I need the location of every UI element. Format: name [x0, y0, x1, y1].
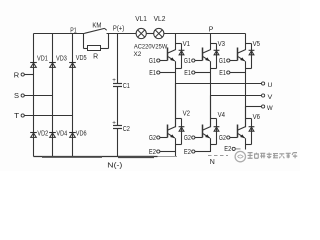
svg-text:P(+): P(+): [113, 23, 124, 32]
wire: phase U output: [176, 83, 262, 85]
svg-text:E1: E1: [149, 70, 156, 77]
terminal U: [262, 82, 265, 85]
wire: N bus darker segment left: [42, 156, 102, 158]
wire: rectifier leg column 1: [33, 34, 35, 157]
resistor R (charging resistor): [84, 48, 88, 50]
svg-text:T: T: [14, 111, 20, 120]
wire: rectifier leg column 3: [72, 34, 74, 157]
svg-text:V2: V2: [183, 110, 190, 118]
svg-text:VD4: VD4: [56, 129, 67, 138]
diode VD5: [69, 62, 76, 64]
svg-text:VD3: VD3: [56, 54, 67, 63]
svg-text:R: R: [93, 52, 98, 61]
svg-text:VD1: VD1: [37, 54, 48, 63]
svg-text:V5: V5: [253, 40, 260, 48]
wire: inverter positive bus (node P): [164, 33, 246, 35]
transistor V5 (IGBT): [238, 34, 246, 62]
svg-text:G2: G2: [149, 135, 156, 142]
svg-text:E2: E2: [224, 146, 231, 153]
gate terminal G2 of V4: [184, 135, 203, 142]
wire: top DC bus from rectifier to KM: [34, 33, 85, 35]
svg-text:G2: G2: [184, 135, 191, 142]
wire: N bus faint segment under watermark: [158, 156, 178, 158]
svg-text:S: S: [14, 91, 19, 100]
svg-text:G1: G1: [184, 58, 191, 65]
svg-text:KM: KM: [92, 23, 101, 30]
svg-text:U: U: [268, 82, 273, 89]
svg-text:VD5: VD5: [76, 53, 87, 62]
svg-text:E1: E1: [184, 70, 191, 77]
diode VD3: [49, 62, 56, 64]
svg-text:V6: V6: [253, 113, 260, 121]
terminal W: [262, 105, 265, 108]
wire: emitter of V1 down to phase node: [175, 61, 177, 127]
wire: emitter of V3 down to phase node: [210, 61, 212, 127]
svg-text:V4: V4: [218, 111, 225, 119]
svg-text:G1: G1: [219, 58, 226, 65]
watermark text (pseudo CJK glyph marks): [248, 153, 298, 159]
wire: emitter of V4 (fades into watermark): [210, 138, 212, 152]
wire: N bus thick segment right of C2: [118, 156, 154, 158]
wire: C2 to N bus: [117, 129, 119, 157]
gate terminal G2 of V2: [149, 135, 168, 142]
freewheeling diode of V5: [246, 44, 255, 69]
svg-text:R: R: [14, 70, 19, 79]
svg-text:E2: E2: [149, 149, 156, 156]
freewheeling diode of V6: [246, 119, 255, 145]
wire: phase W output: [246, 106, 262, 108]
wire: R phase input: [24, 74, 33, 76]
svg-text:P: P: [209, 24, 214, 33]
svg-text:X2: X2: [134, 51, 142, 58]
wire: N(-) bus: [34, 156, 158, 158]
svg-text:N: N: [210, 157, 215, 166]
wire: emitter of V2 to N bus: [175, 138, 177, 156]
terminal V: [262, 94, 265, 97]
svg-text:G2: G2: [219, 135, 226, 142]
svg-text:VD2: VD2: [37, 129, 48, 138]
wire: resistor branch right drop: [108, 34, 110, 49]
svg-text:C1: C1: [123, 81, 130, 90]
wire: resistor branch left drop: [83, 34, 85, 49]
transistor V4 (IGBT): [203, 96, 211, 139]
svg-text:AC220V25W: AC220V25W: [134, 43, 168, 50]
diode VD4: [49, 132, 56, 134]
wire: phase V output: [211, 95, 262, 97]
transistor V3 (IGBT): [203, 34, 211, 62]
svg-text:VL1: VL1: [135, 14, 147, 23]
svg-text:E1: E1: [219, 70, 226, 77]
diode VD6: [69, 132, 76, 134]
wire: emitter of V6 (fades into watermark): [245, 138, 247, 149]
freewheeling diode of V1: [176, 44, 185, 69]
svg-text:VD6: VD6: [76, 129, 87, 138]
gate terminal G1 of V3: [184, 58, 203, 65]
wire: drop from bus to C1: [117, 34, 119, 84]
svg-text:C2: C2: [123, 124, 130, 133]
wire: emitter of V5 down to phase node: [245, 61, 247, 127]
svg-text:W: W: [267, 105, 273, 112]
wire: between C1 and C2: [117, 87, 119, 126]
watermark logo circle: [235, 151, 245, 161]
svg-text:V1: V1: [183, 40, 190, 48]
freewheeling diode of V4: [211, 119, 220, 145]
gate terminal G1 of V1: [149, 58, 168, 65]
svg-text:V: V: [268, 94, 273, 101]
svg-text:V3: V3: [218, 40, 225, 48]
svg-text:VL2: VL2: [154, 14, 166, 23]
diode VD2: [30, 132, 37, 134]
transistor V1 (IGBT): [168, 34, 176, 62]
svg-text:N(-): N(-): [107, 160, 122, 169]
wire: rectifier leg column 2: [52, 34, 54, 157]
wire: bus from KM to lamps: [107, 33, 137, 35]
wire: S phase input: [24, 95, 52, 97]
transistor V6 (IGBT): [238, 107, 246, 139]
gate terminal G2 of V6: [219, 135, 238, 142]
svg-text:E2: E2: [184, 149, 191, 156]
svg-text:G1: G1: [149, 58, 156, 65]
wire: between VL1 and VL2: [146, 33, 153, 35]
gate terminal G1 of V5: [219, 58, 238, 65]
freewheeling diode of V3: [211, 44, 220, 69]
svg-text:P1: P1: [70, 25, 76, 34]
wire: T phase input: [24, 115, 72, 117]
transistor V2 (IGBT): [168, 84, 176, 139]
freewheeling diode of V2: [176, 119, 185, 145]
diode VD1: [30, 62, 37, 64]
